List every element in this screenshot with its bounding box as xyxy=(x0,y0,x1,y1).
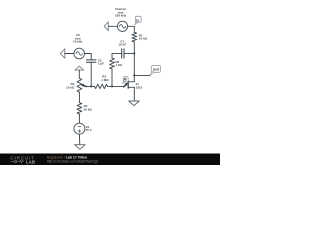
wire xyxy=(111,53,113,58)
resistor R2 1 MOhm xyxy=(95,74,110,88)
CircuitLab logo xyxy=(10,155,35,164)
wire source to ground xyxy=(133,87,135,101)
svg-text:1 µF: 1 µF xyxy=(98,62,104,66)
wire xyxy=(85,54,92,60)
footer bar xyxy=(0,154,220,166)
svg-text:10 nF: 10 nF xyxy=(118,43,126,47)
svg-text:15 V: 15 V xyxy=(86,128,92,132)
svg-text:1 kΩ: 1 kΩ xyxy=(115,63,122,67)
svg-text:LAB: LAB xyxy=(26,159,35,164)
wire xyxy=(111,69,113,86)
wire xyxy=(78,114,80,123)
svg-text:out: out xyxy=(153,66,160,71)
node C2 bottom xyxy=(90,85,92,87)
potentiometer R3 10 kOhm xyxy=(66,78,86,92)
wire xyxy=(86,85,95,87)
wire drain xyxy=(133,75,135,81)
net flag in (bubble) xyxy=(135,16,142,25)
ground right xyxy=(129,101,140,106)
resistor R1 10 kOhm xyxy=(132,32,148,42)
capacitor C2 1 uF xyxy=(86,59,104,66)
svg-text:10 kΩ: 10 kΩ xyxy=(66,86,75,90)
svg-text:10 kΩ: 10 kΩ xyxy=(139,37,148,41)
wire to out xyxy=(134,74,150,76)
svg-text:10 kHz: 10 kHz xyxy=(73,39,83,43)
node C1/R1 xyxy=(133,52,135,54)
voltage source V3 sine 10 kHz xyxy=(73,33,84,59)
voltage source V2 15 V xyxy=(74,123,92,134)
wire xyxy=(90,62,92,86)
wire xyxy=(108,85,124,87)
net flag out (bubble) xyxy=(150,65,161,75)
svg-text:1 MΩ: 1 MΩ xyxy=(101,78,109,82)
capacitor C1 10 nF xyxy=(118,39,126,58)
svg-text:20 kΩ: 20 kΩ xyxy=(84,108,93,112)
wire xyxy=(108,25,117,27)
wire xyxy=(112,52,122,54)
resistor R4 20 kOhm xyxy=(77,103,92,115)
wire xyxy=(78,70,80,78)
ground left xyxy=(75,145,86,150)
wire xyxy=(124,52,134,54)
wire xyxy=(128,26,135,32)
wire xyxy=(65,53,74,55)
annotation bubble at transistor xyxy=(122,77,128,84)
wire xyxy=(78,134,80,145)
transistor J1 J310 xyxy=(124,81,143,90)
resistor R6 1 kOhm xyxy=(110,58,123,69)
svg-text:100 kHz: 100 kHz xyxy=(115,14,127,18)
voltage source Vcarrier sine 100 kHz xyxy=(115,7,128,31)
wire xyxy=(78,92,80,102)
svg-text:http://circuitlab.com/c/kjfk76: http://circuitlab.com/c/kjfk76at23gt xyxy=(47,159,98,163)
node R6 bottom xyxy=(111,85,113,87)
wire xyxy=(133,53,135,75)
svg-text:in: in xyxy=(136,18,139,22)
node flag up above R3 xyxy=(75,66,84,70)
wire xyxy=(133,42,135,54)
svg-text:J310: J310 xyxy=(136,86,143,90)
node flag left of V3 xyxy=(60,49,64,59)
node flag left of Vcarrier xyxy=(104,22,108,31)
node drain/out xyxy=(133,74,135,76)
